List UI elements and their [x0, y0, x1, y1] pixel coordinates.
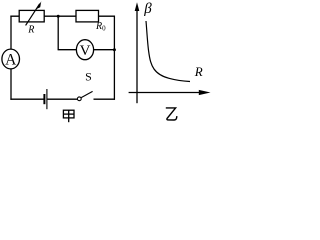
wire: voltmeter branch right horizontal: [93, 49, 114, 51]
resistor R0 (box): [76, 10, 99, 22]
wire: bottom side, battery to switch: [47, 98, 77, 100]
switch lever: [81, 91, 92, 97]
ammeter A: [2, 49, 20, 69]
wire: left side of circuit loop: [10, 16, 12, 100]
svg-text:V: V: [80, 43, 91, 59]
graph x-axis: [129, 92, 201, 94]
rheostat arrow: [26, 4, 40, 26]
battery positive plate (long thin): [46, 89, 48, 109]
svg-text:β: β: [143, 1, 152, 17]
wire: right side of circuit loop: [113, 16, 115, 100]
wire: top side of circuit loop: [10, 15, 115, 17]
svg-text:S: S: [85, 69, 92, 83]
curve beta vs R: [146, 21, 190, 82]
switch S pivot circle: [77, 97, 81, 101]
wire: voltmeter branch left horizontal: [58, 49, 77, 51]
battery negative plate (short thick): [43, 94, 45, 104]
wire: bottom side, battery to left corner: [10, 98, 43, 100]
svg-text:R: R: [27, 25, 34, 36]
rheostat R (box): [19, 10, 44, 22]
wire: voltmeter branch vertical: [57, 16, 59, 50]
label 乙 (drawn strokes): [166, 108, 177, 120]
voltmeter V: [76, 40, 93, 60]
graph y-axis: [136, 9, 138, 103]
wire: bottom side, switch to right corner: [94, 98, 116, 100]
node junction on top wire: [57, 15, 60, 18]
svg-text:A: A: [5, 51, 17, 68]
svg-text:R: R: [194, 64, 203, 79]
label 甲 (drawn strokes): [63, 110, 74, 122]
node: voltmeter branch meets right wire: [113, 48, 116, 51]
